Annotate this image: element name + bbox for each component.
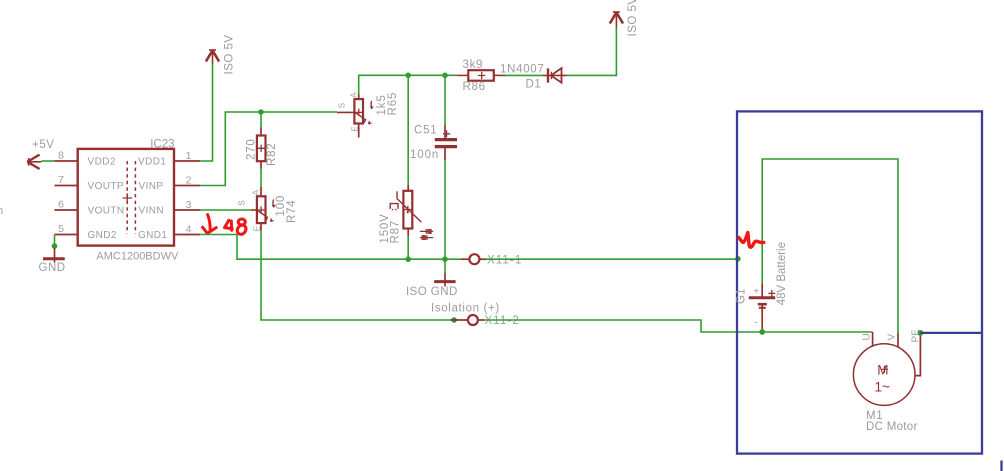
svg-text:G1: G1 (736, 289, 748, 304)
wire R87 riser (407, 75, 409, 185)
svg-text:270: 270 (246, 138, 258, 160)
svg-text:R86: R86 (463, 81, 486, 93)
svg-text:IC23: IC23 (150, 139, 174, 151)
svg-text:DC Motor: DC Motor (866, 421, 918, 433)
junction pin2-net / R82 top (258, 109, 264, 115)
wire pin4 down to X11-1 net (200, 235, 461, 260)
svg-text:R87: R87 (390, 220, 402, 244)
svg-text:48V Batterie: 48V Batterie (776, 242, 788, 305)
IC pin 2 (174, 175, 200, 187)
svg-text:1N4007: 1N4007 (500, 64, 544, 76)
power flag ISO 5V (left) (206, 34, 236, 74)
svg-text:R82: R82 (266, 143, 278, 167)
svg-text:C51: C51 (414, 125, 438, 137)
wire pin1 to ISO5V flag (200, 63, 213, 161)
wire C51 riser (444, 75, 446, 125)
varistor R87 150V (379, 185, 433, 244)
svg-text:S: S (337, 103, 346, 108)
svg-text:A: A (349, 92, 358, 98)
diode D1 1N4007 (500, 64, 567, 91)
IC pin 3 (174, 199, 200, 211)
svg-text:E: E (253, 226, 262, 231)
red annotation "↓48" (203, 215, 246, 235)
ground GND (39, 248, 66, 274)
wire pin 5 to GND (54, 235, 56, 249)
IC U IC23 AMC1200BDWV (78, 139, 179, 263)
svg-text:S: S (238, 200, 247, 205)
svg-text:4: 4 (186, 224, 192, 236)
junction top net / R87 riser (405, 73, 411, 79)
svg-text:Isolation (+): Isolation (+) (431, 302, 500, 314)
svg-text:VOUTP: VOUTP (88, 181, 124, 192)
svg-text:7: 7 (58, 174, 64, 186)
svg-text:6: 6 (58, 199, 64, 211)
IC pin 1 (174, 150, 200, 162)
supply +5V (27, 139, 54, 169)
wire pin2 up and over to R65 wiper (200, 112, 337, 186)
trimmer R65 1k5 (337, 92, 399, 138)
connector pin X11-2 (451, 315, 520, 327)
svg-text:+: + (753, 286, 759, 297)
svg-text:ISO 5V: ISO 5V (224, 34, 236, 74)
svg-text:+5V: +5V (32, 139, 55, 151)
motor M1 DC Motor (853, 329, 921, 433)
svg-text:X11-1: X11-1 (487, 255, 522, 267)
junction battery minus / bottom net (759, 329, 765, 335)
svg-text:AMC1200BDWV: AMC1200BDWV (96, 250, 179, 262)
svg-text:-: - (755, 318, 758, 329)
svg-text:R74: R74 (286, 200, 298, 224)
svg-text:1: 1 (186, 150, 192, 162)
wire X11-2 to battery/motor (485, 320, 873, 332)
svg-text:D1: D1 (526, 79, 542, 91)
svg-text:GND: GND (39, 262, 66, 274)
svg-text:GND2: GND2 (88, 230, 117, 241)
svg-text:A: A (252, 189, 261, 195)
IC pin 7 (55, 174, 78, 186)
wire R82 to R74 (260, 169, 262, 188)
svg-text:R65: R65 (387, 92, 399, 116)
wire R74 E down to X11-2 net (261, 231, 451, 321)
svg-text:GND1: GND1 (138, 230, 167, 241)
wire X11-1 to module frame (486, 258, 738, 260)
red annotation squiggle (739, 233, 764, 248)
svg-text:100n: 100n (410, 149, 439, 161)
wire PE to frame (blue) (920, 332, 982, 334)
wire battery + loop to motor V (762, 159, 898, 333)
wire C51 bottom to X11-1 net (444, 160, 446, 259)
svg-text:VINP: VINP (139, 181, 164, 192)
junction X11-1 net / R87 (405, 256, 411, 262)
capacitor C51 100n (410, 125, 457, 161)
IC pin 5 (55, 223, 78, 235)
svg-text:ISO 5V: ISO 5V (627, 0, 639, 37)
wire +5V to pin 8 (41, 160, 54, 162)
wire pin3 to R74 wiper (200, 209, 251, 211)
battery G1 48V (736, 242, 788, 332)
svg-text:VOUTN: VOUTN (88, 206, 125, 217)
resistor R86 3k9 (457, 59, 505, 93)
svg-text:5: 5 (58, 223, 64, 235)
IC pin 6 (55, 199, 78, 211)
IC pin 4 (174, 224, 200, 236)
svg-text:X11-2: X11-2 (485, 315, 520, 327)
wire R86 to D1 (505, 74, 543, 76)
wire D1 to ISO5V right (567, 28, 617, 76)
svg-text:n: n (0, 205, 3, 217)
junction X11-1 net / C51 / ISO GND (442, 256, 448, 262)
module frame (blue box) (737, 111, 982, 453)
svg-text:3: 3 (186, 199, 192, 211)
wire end dot on frame (735, 256, 741, 262)
svg-text:ISO GND: ISO GND (406, 286, 458, 298)
frame fragment bottom-right corner (1000, 461, 1002, 471)
power flag ISO 5V (right) (610, 0, 639, 37)
svg-text:VINN: VINN (139, 206, 165, 217)
svg-text:VDD2: VDD2 (88, 157, 116, 168)
svg-text:U: U (861, 333, 872, 340)
connector pin X11-1 (461, 254, 522, 266)
junction PE / frame wire (918, 330, 924, 336)
svg-text:VDD1: VDD1 (138, 157, 166, 168)
svg-text:3k9: 3k9 (463, 59, 484, 71)
svg-text:V: V (886, 334, 897, 341)
wire R82 top stub (260, 112, 262, 128)
svg-text:E: E (350, 126, 359, 131)
junction X11-2 stub (451, 317, 457, 323)
trimmer R74 100 (238, 187, 299, 231)
svg-text:8: 8 (58, 150, 64, 162)
svg-text:2: 2 (186, 175, 192, 187)
junction on GND wire (52, 243, 58, 249)
IC pin 8 (55, 150, 78, 162)
ISO GND symbol (406, 259, 458, 298)
wire R65 A up to top net (359, 75, 458, 94)
wire R87 bottom to X11-1 net (407, 236, 409, 259)
resistor R82 270 (246, 128, 279, 169)
svg-text:1~: 1~ (875, 380, 891, 395)
junction top net / C51 riser (442, 73, 448, 79)
